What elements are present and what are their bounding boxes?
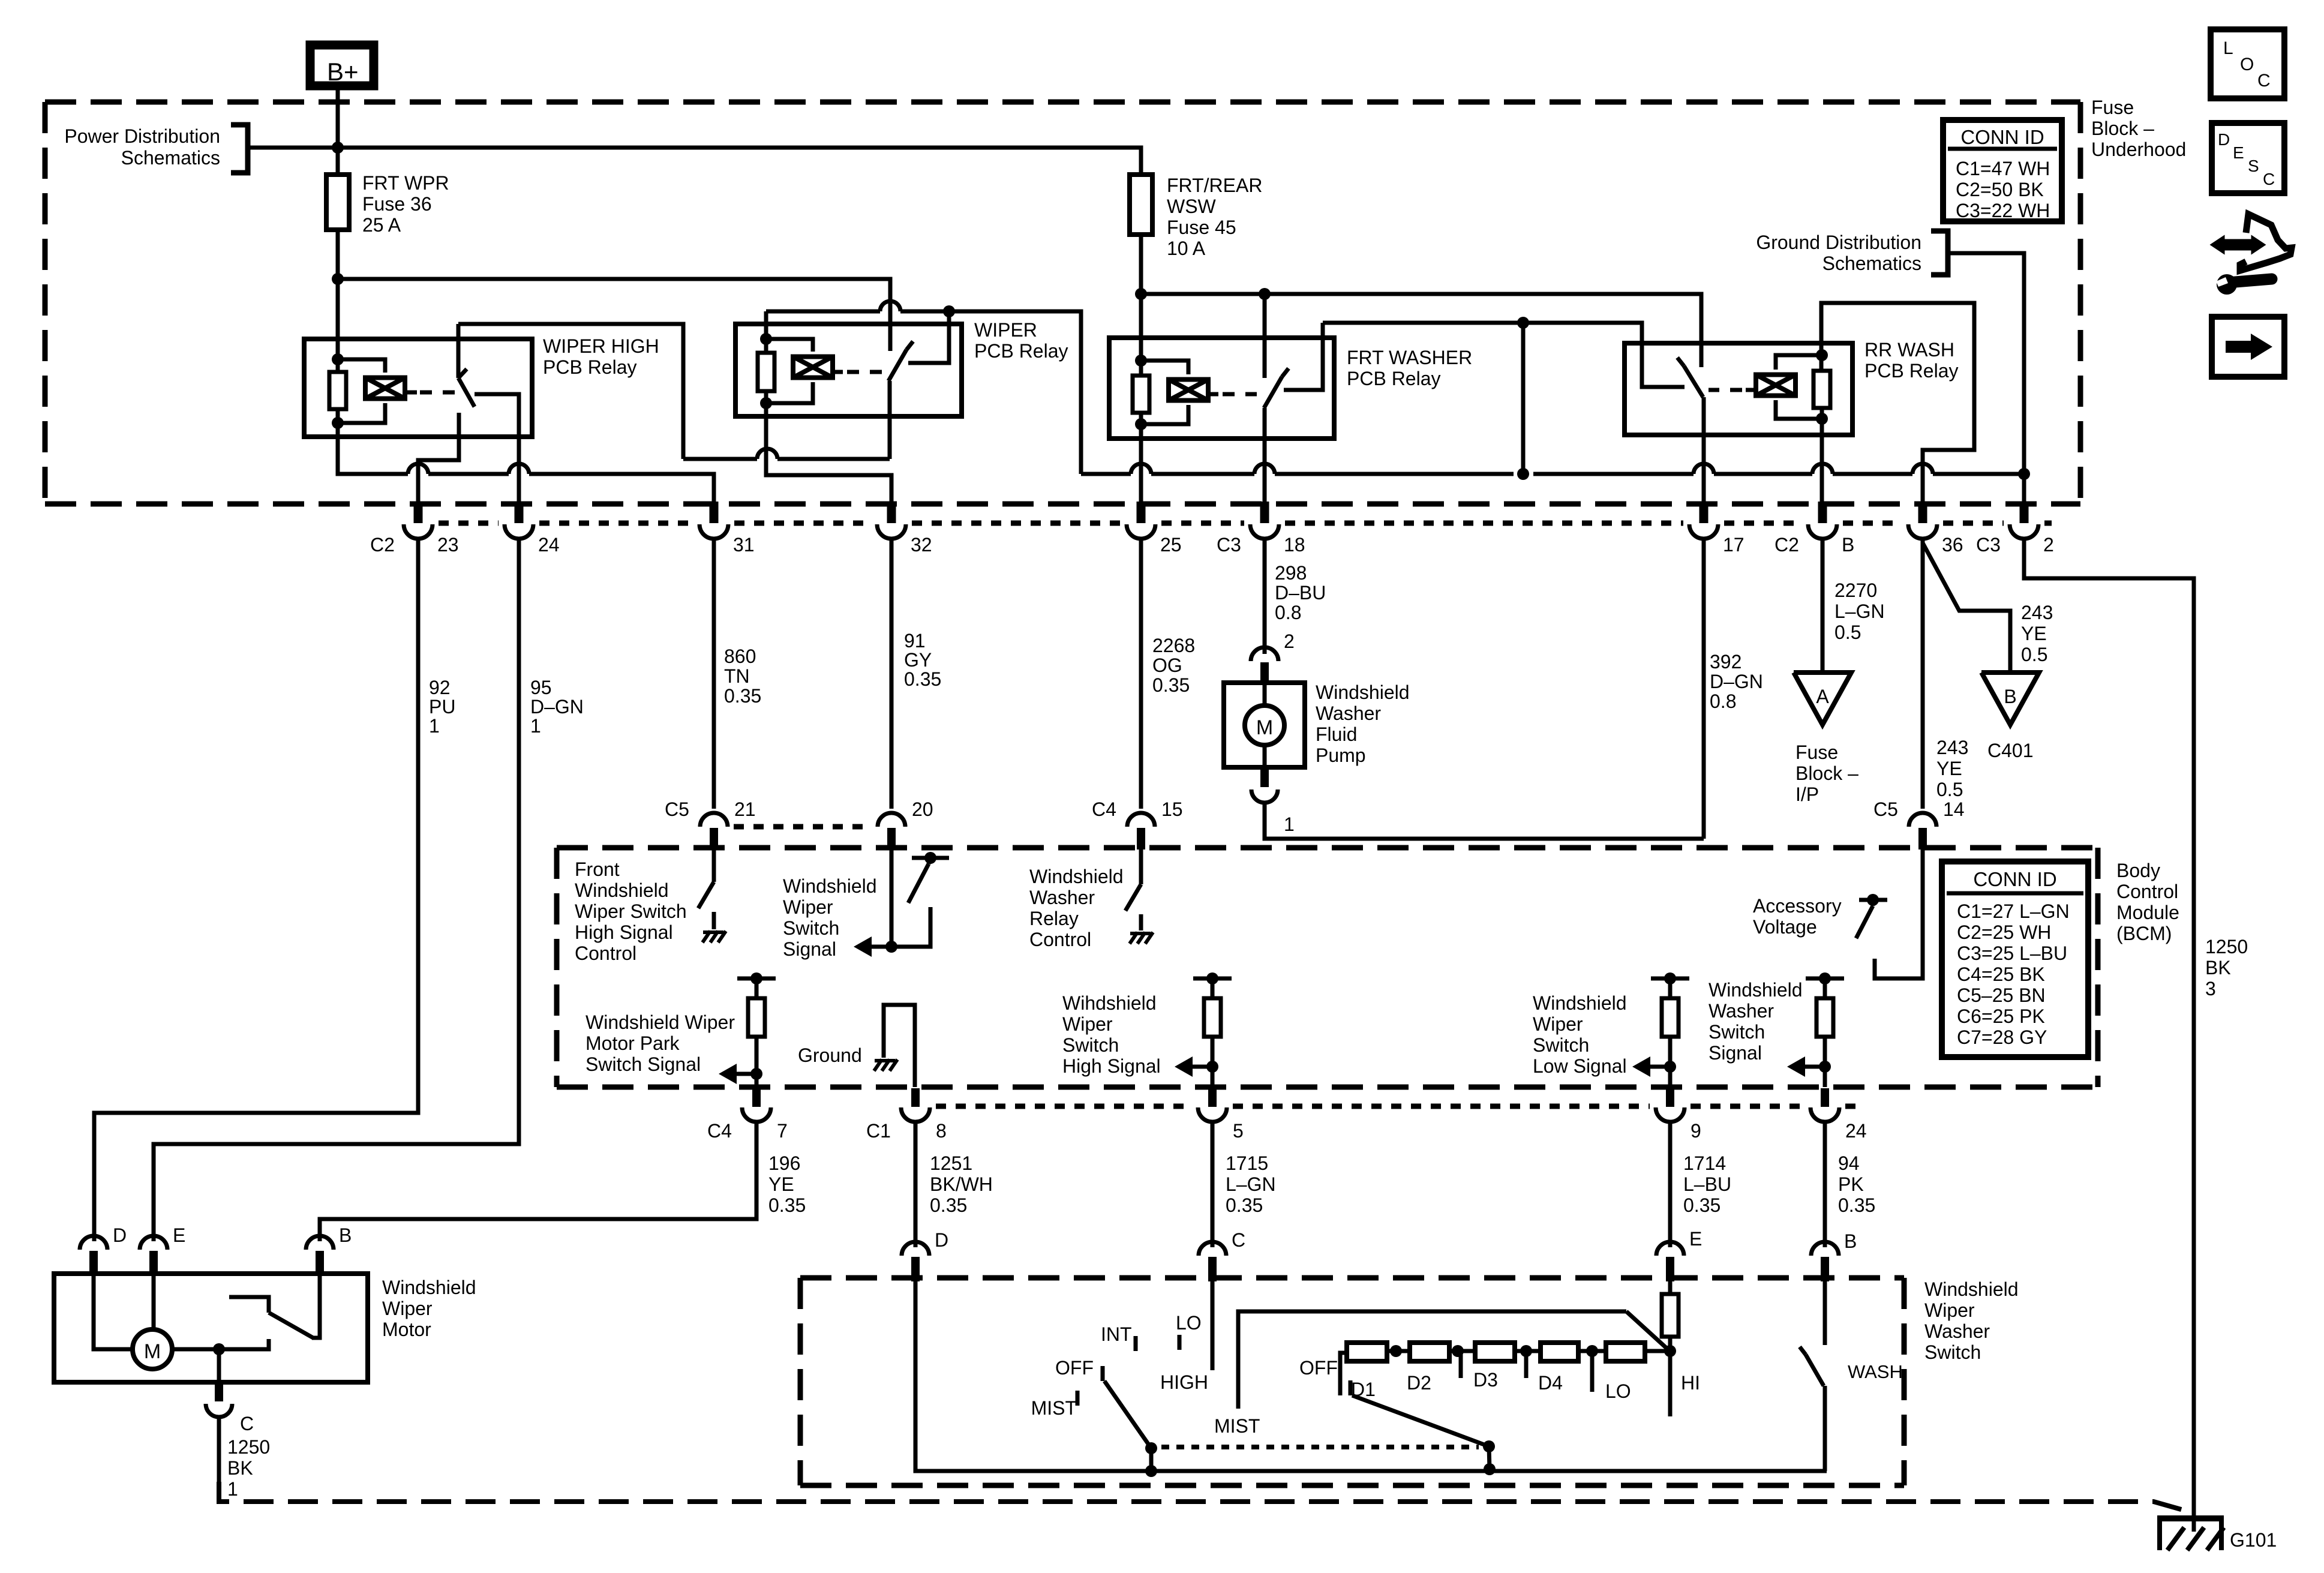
svg-text:0.35: 0.35 [1683, 1194, 1721, 1216]
svg-text:0.35: 0.35 [724, 685, 761, 707]
svg-text:C5–25 BN: C5–25 BN [1957, 984, 2046, 1006]
svg-text:Washer: Washer [1924, 1320, 1990, 1342]
wire pin D to common rail [915, 1281, 1827, 1471]
wire 243 YE from pin 36 down to BCM 14 [1921, 543, 1925, 809]
connector pin B at fuse block [1818, 502, 1827, 523]
BCM top connector pin 20 [878, 813, 905, 827]
svg-text:1250: 1250 [227, 1436, 270, 1458]
svg-text:S: S [2248, 157, 2259, 175]
svg-text:1714: 1714 [1683, 1152, 1726, 1174]
svg-text:Signal: Signal [783, 938, 836, 960]
svg-text:E: E [1689, 1228, 1702, 1250]
connector pin 17 at fuse block [1700, 502, 1709, 523]
svg-text:D–GN: D–GN [530, 696, 584, 718]
svg-text:M: M [144, 1340, 161, 1363]
svg-text:2270: 2270 [1834, 580, 1877, 601]
resistor windshield wiper motor park switch signal [737, 977, 776, 981]
wire wiper NC contact [908, 311, 949, 363]
washer pump motor M [1263, 682, 1267, 706]
switch connector pin C [1199, 1242, 1226, 1256]
wire 1714 L-BU from BCM 9 to switch E [1668, 1123, 1673, 1247]
svg-text:0.5: 0.5 [2021, 644, 2047, 665]
windshield wiper motor box [54, 1274, 368, 1382]
dotted line between BCM pins 21 and 20 [734, 824, 872, 830]
wiper mode switch OFF blade [1101, 1366, 1105, 1381]
svg-text:D: D [113, 1224, 127, 1246]
node wiper coil bottom [760, 397, 772, 409]
wire y519 coil top rail [766, 310, 880, 314]
svg-text:20: 20 [912, 798, 933, 820]
svg-text:C1=27 L–GN: C1=27 L–GN [1957, 900, 2070, 922]
svg-text:95: 95 [530, 677, 552, 698]
svg-text:Washer: Washer [1709, 1000, 1774, 1022]
svg-text:Control: Control [575, 942, 636, 964]
svg-text:YE: YE [768, 1173, 794, 1195]
svg-text:0.35: 0.35 [930, 1194, 967, 1216]
dotted line between mode blades [1161, 1445, 1479, 1449]
BCM top connector pin 15 [1127, 813, 1155, 827]
relay WIPER PCB Relay box [735, 324, 962, 416]
svg-text:Accessory: Accessory [1753, 895, 1842, 917]
svg-text:Windshield: Windshield [783, 875, 877, 897]
svg-text:Switch: Switch [1924, 1341, 1981, 1363]
wire 243 YE from pin 36 to C401 [1923, 543, 2010, 671]
svg-text:94: 94 [1838, 1152, 1860, 1174]
svg-text:Switch: Switch [1062, 1034, 1119, 1056]
svg-text:0.35: 0.35 [1152, 674, 1190, 696]
coil stub [405, 391, 417, 395]
node rr wash coil bottom [1816, 413, 1828, 425]
svg-text:31: 31 [733, 534, 755, 556]
svg-text:C2=50 BK: C2=50 BK [1956, 179, 2044, 200]
body control module dashed box [557, 845, 2098, 851]
node below fuse 36 [332, 273, 344, 285]
switch windshield wiper switch signal [890, 857, 894, 947]
wire frt washer coil feed [1139, 294, 1143, 376]
wire 1250 BK 3 right margin to G101 [2024, 547, 2194, 1532]
svg-text:24: 24 [538, 534, 560, 556]
speed selector blade [1626, 1311, 1667, 1349]
ground distribution bracket [1931, 231, 1948, 275]
resistor wiper relay [758, 353, 774, 391]
svg-text:B: B [339, 1224, 352, 1246]
svg-text:G101: G101 [2230, 1529, 2277, 1551]
wire node to wiper relay switch feed [338, 279, 890, 351]
resistor windshield washer switch signal [1806, 977, 1844, 981]
svg-text:243: 243 [1936, 737, 1968, 758]
fuse block underhood dashed box [45, 100, 2080, 105]
arrow windshield wiper motor park switch signal [733, 1072, 756, 1076]
svg-text:Switch: Switch [1709, 1021, 1765, 1043]
wire 1715 L-GN from BCM 5 to switch C [1211, 1123, 1215, 1247]
svg-text:OFF: OFF [1299, 1357, 1338, 1379]
svg-text:D: D [935, 1229, 948, 1251]
wire 1251 BK/WH from BCM 8 to switch D [914, 1123, 918, 1247]
svg-text:C3: C3 [1976, 534, 2001, 556]
svg-text:Wiper Switch: Wiper Switch [575, 900, 687, 922]
BCM bottom connector pin 9 [1666, 1088, 1674, 1107]
icon LOC box [2211, 29, 2284, 98]
power distribution bracket [231, 125, 248, 173]
resistor D3 [1475, 1343, 1515, 1361]
wire wiper relay coil feed [764, 311, 768, 373]
connector pin 31 at fuse block [710, 502, 719, 523]
wiper motor park switch [172, 1347, 219, 1352]
node power rail [332, 142, 344, 154]
svg-text:GY: GY [904, 649, 932, 671]
coil wiper high relay [365, 378, 405, 399]
svg-text:1: 1 [429, 715, 440, 737]
svg-text:C2: C2 [1774, 534, 1799, 556]
svg-text:Windshield: Windshield [1029, 866, 1124, 887]
connector pin 32 at fuse block [887, 502, 896, 523]
svg-text:Underhood: Underhood [2091, 139, 2186, 160]
svg-text:LO: LO [1176, 1312, 1202, 1334]
node below fuse 45 [1135, 288, 1147, 300]
svg-text:5: 5 [1233, 1120, 1244, 1142]
svg-text:C5: C5 [665, 798, 689, 820]
svg-text:D–BU: D–BU [1275, 582, 1326, 604]
wire rr wash coil loop [1776, 355, 1822, 370]
svg-text:Pump: Pump [1316, 745, 1366, 766]
svg-text:BK: BK [2205, 957, 2231, 978]
node frt washer coil top [1135, 355, 1147, 367]
wire y765 link rail [683, 457, 757, 461]
dashed linkage wiper relay [847, 370, 883, 374]
switch front windshield wiper switch high signal control [712, 857, 716, 882]
svg-text:Ground Distribution: Ground Distribution [1756, 232, 1921, 253]
svg-text:D2: D2 [1407, 1372, 1431, 1394]
svg-text:B+: B+ [327, 58, 359, 86]
washer pump connector pin 2 [1251, 647, 1278, 661]
svg-text:0.5: 0.5 [1834, 622, 1861, 643]
svg-text:Wiper: Wiper [1924, 1299, 1975, 1321]
svg-text:L–BU: L–BU [1683, 1173, 1731, 1195]
dashed linkage wiper high [420, 391, 456, 395]
connector pin 23 at fuse block [414, 502, 423, 523]
svg-text:Low Signal: Low Signal [1533, 1055, 1627, 1077]
svg-text:860: 860 [724, 646, 756, 667]
svg-text:10 A: 10 A [1167, 238, 1206, 259]
svg-text:Voltage: Voltage [1753, 916, 1817, 938]
wire frt washer NC contact [1284, 323, 1323, 390]
connector dotted line under fuse block [439, 521, 499, 526]
svg-text:0.8: 0.8 [1275, 602, 1301, 623]
svg-text:C3: C3 [1217, 534, 1241, 556]
chassis ground at wiper high control switch [702, 931, 710, 942]
windshield washer fluid pump box [1224, 683, 1305, 767]
BCM bottom connector pin 5 [1208, 1088, 1217, 1107]
svg-text:D–GN: D–GN [1710, 671, 1763, 692]
svg-text:Ground: Ground [798, 1044, 862, 1066]
svg-text:Control: Control [2116, 881, 2178, 902]
svg-text:C: C [2257, 71, 2271, 91]
coil rr wash relay [1756, 375, 1795, 396]
svg-text:C401: C401 [1987, 740, 2034, 761]
relay RR WASH PCB Relay box [1625, 343, 1852, 435]
node chain 1 [1390, 1345, 1402, 1357]
svg-text:LO: LO [1605, 1380, 1631, 1402]
svg-text:(BCM): (BCM) [2116, 923, 2172, 944]
wire 860 TN from pin 31 to BCM 21 [712, 547, 716, 809]
switch connector pin E [1656, 1242, 1684, 1256]
svg-text:Fuse 36: Fuse 36 [362, 193, 432, 215]
svg-text:PU: PU [429, 696, 455, 718]
svg-text:Wihdshield: Wihdshield [1062, 992, 1157, 1014]
svg-text:D3: D3 [1473, 1369, 1498, 1391]
BCM top connector pin 21 [700, 813, 728, 827]
svg-text:C4: C4 [707, 1120, 732, 1142]
wire rr wash coil feed routing from pin 36 [1821, 303, 1974, 503]
resistor D2 [1410, 1343, 1449, 1361]
svg-text:C6=25 PK: C6=25 PK [1957, 1005, 2045, 1027]
wire B+ down to junction [336, 86, 340, 175]
svg-text:Fuse 45: Fuse 45 [1167, 217, 1236, 238]
svg-text:Schematics: Schematics [121, 147, 220, 169]
svg-text:Module: Module [2116, 902, 2179, 923]
switch frt washer relay [1282, 368, 1289, 377]
svg-text:C5: C5 [1873, 798, 1898, 820]
resistor frt washer relay [1133, 376, 1149, 413]
svg-text:OFF: OFF [1055, 1357, 1094, 1379]
node rr wash coil top [1816, 349, 1828, 361]
tap D2 [1459, 1351, 1463, 1378]
connector triangle B C401 [1981, 673, 2039, 725]
svg-text:0.8: 0.8 [1710, 691, 1736, 712]
svg-text:2: 2 [1284, 631, 1295, 652]
svg-text:PCB Relay: PCB Relay [1347, 368, 1441, 389]
wire node down to bottom rail [1521, 323, 1526, 474]
HI column resistor [1668, 1281, 1673, 1294]
wiper speed resistor chain start tap [1340, 1353, 1347, 1395]
resistor wiper high relay [329, 372, 346, 409]
node frt washer coil bottom [1135, 418, 1147, 430]
svg-text:21: 21 [734, 798, 756, 820]
svg-text:Windshield: Windshield [1709, 979, 1803, 1001]
svg-text:WIPER HIGH: WIPER HIGH [543, 335, 659, 357]
svg-text:Motor Park: Motor Park [585, 1032, 680, 1054]
windshield wiper washer switch dashed box [800, 1275, 1904, 1281]
svg-text:0.35: 0.35 [1226, 1194, 1263, 1216]
wire 92 PU from pin 23 to wiper motor D [94, 547, 418, 1241]
coil wiper relay [793, 357, 833, 378]
connector pin 18 at fuse block [1260, 502, 1269, 523]
svg-text:L–GN: L–GN [1226, 1173, 1276, 1195]
node on y519 rail [943, 305, 955, 317]
svg-text:9: 9 [1691, 1120, 1701, 1142]
svg-text:WSW: WSW [1167, 196, 1217, 217]
svg-text:Windshield: Windshield [1924, 1278, 2019, 1300]
node feed FRT WASHER switch [1259, 288, 1271, 300]
svg-text:FRT WASHER: FRT WASHER [1347, 347, 1472, 368]
svg-text:YE: YE [2021, 623, 2047, 644]
svg-text:MIST: MIST [1031, 1397, 1077, 1419]
svg-text:C4=25 BK: C4=25 BK [1957, 963, 2045, 985]
svg-text:WASH: WASH [1848, 1361, 1903, 1382]
svg-text:14: 14 [1943, 798, 1965, 820]
wire pin C HIGH contact [1211, 1281, 1215, 1370]
svg-text:2: 2 [2043, 534, 2054, 556]
relay WIPER HIGH PCB Relay box [304, 339, 532, 437]
svg-text:B: B [1842, 534, 1854, 556]
svg-text:Washer: Washer [1029, 887, 1095, 908]
wire 1250 BK 1 from motor C [217, 1418, 221, 1482]
svg-text:392: 392 [1710, 651, 1742, 673]
node chain 4 [1586, 1345, 1598, 1357]
switch windshield washer relay control [1139, 857, 1143, 884]
BCM top connector pin 14 [1909, 813, 1936, 827]
svg-text:M: M [1256, 716, 1273, 739]
coil stub [1746, 388, 1756, 392]
wire pin 2 to bar [2022, 474, 2026, 503]
svg-text:Switch Signal: Switch Signal [585, 1053, 701, 1075]
svg-text:Windshield Wiper: Windshield Wiper [585, 1011, 735, 1033]
svg-text:C: C [240, 1413, 254, 1434]
switch accessory voltage [1859, 898, 1887, 902]
wire wiper coil bottom to pin 32 [766, 449, 891, 502]
wire fuse 45 to node [1139, 235, 1143, 298]
svg-text:Fuse: Fuse [2091, 97, 2134, 118]
svg-text:PK: PK [1838, 1173, 1864, 1195]
svg-text:Switch: Switch [783, 917, 839, 939]
svg-text:18: 18 [1284, 534, 1305, 556]
node chain 2 [1452, 1345, 1464, 1357]
wire 91 GY from pin 32 to BCM 20 [890, 547, 894, 809]
svg-text:1: 1 [1284, 813, 1295, 835]
svg-text:25 A: 25 A [362, 214, 401, 236]
wiper motor connector pin E [140, 1236, 167, 1250]
BCM bottom connector pin 7 [752, 1088, 761, 1107]
BCM bottom connector pin 24 [1821, 1088, 1829, 1107]
svg-text:1715: 1715 [1226, 1152, 1268, 1174]
svg-text:C7=28 GY: C7=28 GY [1957, 1026, 2047, 1048]
wire wiper high NO contact to pin 23 [418, 437, 459, 502]
svg-text:196: 196 [768, 1152, 800, 1174]
wire ground distribution to pin 2 column [1948, 253, 2024, 474]
svg-text:15: 15 [1161, 798, 1183, 820]
coil stub [1208, 392, 1218, 397]
wiper motor connector pin B [306, 1236, 334, 1250]
wire wiper high coil loop [338, 359, 385, 373]
resistor D4 [1541, 1343, 1578, 1361]
battery terminal B+ [310, 45, 374, 86]
svg-text:YE: YE [1936, 758, 1962, 779]
resistor wihdshield wiper switch high signal [1193, 977, 1232, 981]
dashed linkage frt washer [1223, 392, 1257, 397]
svg-text:HI: HI [1681, 1372, 1700, 1394]
svg-text:PCB Relay: PCB Relay [974, 340, 1068, 362]
svg-text:OG: OG [1152, 655, 1182, 676]
wire to FRT WASHER switch [1263, 294, 1267, 378]
svg-text:C2=25 WH: C2=25 WH [1957, 921, 2051, 943]
node wiper coil top [760, 333, 772, 345]
svg-text:C4: C4 [1092, 798, 1116, 820]
coil stub [833, 370, 843, 374]
svg-text:Windshield: Windshield [382, 1277, 476, 1298]
svg-text:PCB Relay: PCB Relay [543, 356, 637, 378]
svg-text:B: B [1844, 1230, 1857, 1252]
node chain 3 [1520, 1345, 1532, 1357]
resistor rr wash relay [1813, 371, 1830, 408]
wire bottom rail left from fuse36 branch [338, 409, 408, 474]
tap D3 [1524, 1351, 1529, 1378]
switch wiper relay [906, 341, 913, 350]
svg-text:Block –: Block – [2091, 118, 2154, 139]
svg-text:C3=25 L–BU: C3=25 L–BU [1957, 942, 2067, 964]
svg-text:CONN ID: CONN ID [1973, 868, 2056, 890]
wiper motor connector pin D [80, 1236, 107, 1250]
icon vehicle wrench [2212, 238, 2263, 252]
svg-text:Body: Body [2116, 860, 2160, 881]
svg-text:1: 1 [227, 1478, 238, 1500]
arrow windshield wiper switch low signal [1647, 1065, 1670, 1069]
svg-text:HIGH: HIGH [1160, 1371, 1208, 1393]
svg-text:MIST: MIST [1214, 1415, 1260, 1437]
svg-text:Windshield: Windshield [1316, 682, 1410, 703]
arrow windshield washer switch signal [1801, 1065, 1825, 1069]
svg-text:Front: Front [575, 858, 620, 880]
svg-text:0.35: 0.35 [1838, 1194, 1875, 1216]
svg-text:36: 36 [1942, 534, 1963, 556]
svg-text:D4: D4 [1538, 1372, 1563, 1394]
WASH switch [1823, 1281, 1827, 1345]
wire fuse36 into wiper high relay [336, 279, 340, 372]
wire wiper coil loop [766, 339, 813, 352]
fuse block CONN ID table [1943, 120, 2062, 221]
wire wiper high NC contact to pin 24 [475, 394, 519, 502]
wire node to RR WASH switch feed [1141, 294, 1701, 367]
svg-text:2268: 2268 [1152, 635, 1195, 656]
wiper motor M circle [94, 1275, 133, 1349]
relay FRT WASHER PCB Relay box [1109, 338, 1334, 439]
node wiper high coil top [332, 353, 344, 365]
BCM CONN ID table [1942, 861, 2088, 1057]
svg-text:1250: 1250 [2205, 936, 2248, 957]
svg-text:Block –: Block – [1795, 763, 1858, 784]
BCM bottom connector pin 8 [911, 1088, 920, 1107]
svg-text:C1=47 WH: C1=47 WH [1956, 158, 2050, 179]
connector pin 36 at fuse block [1918, 502, 1927, 523]
node y538 rail [1517, 317, 1529, 329]
svg-text:High Signal: High Signal [575, 921, 673, 943]
resistor LO-HI [1606, 1343, 1645, 1361]
wire 2270 L-GN from pin B to fuse block IP [1821, 547, 1825, 671]
chassis ground at washer relay control switch [1130, 932, 1137, 944]
svg-text:FRT/REAR: FRT/REAR [1167, 175, 1262, 196]
wire bottom rail right [1081, 472, 1131, 476]
svg-text:24: 24 [1845, 1120, 1867, 1142]
svg-text:0.5: 0.5 [1936, 779, 1963, 800]
arrow windshield wiper switch signal [868, 945, 891, 949]
svg-text:Signal: Signal [1709, 1042, 1762, 1064]
svg-text:Wiper: Wiper [1533, 1013, 1583, 1035]
wire LO feed to speed chain [1238, 1311, 1626, 1409]
svg-text:CONN ID: CONN ID [1960, 126, 2044, 148]
wire 2268 OG from pin 25 to BCM 15 [1139, 547, 1143, 809]
svg-text:BK: BK [227, 1457, 253, 1479]
wiper motor pin C [217, 1349, 221, 1382]
svg-text:C: C [2263, 170, 2275, 188]
svg-text:D: D [2218, 130, 2230, 149]
svg-text:Fuse: Fuse [1795, 742, 1838, 763]
switch connector pin B [1811, 1242, 1839, 1256]
node wiper high coil bottom [332, 417, 344, 429]
svg-text:1251: 1251 [930, 1152, 972, 1174]
svg-text:BK/WH: BK/WH [930, 1173, 993, 1195]
svg-text:E: E [2233, 143, 2244, 162]
svg-text:Washer: Washer [1316, 703, 1381, 724]
svg-text:I/P: I/P [1795, 784, 1819, 805]
